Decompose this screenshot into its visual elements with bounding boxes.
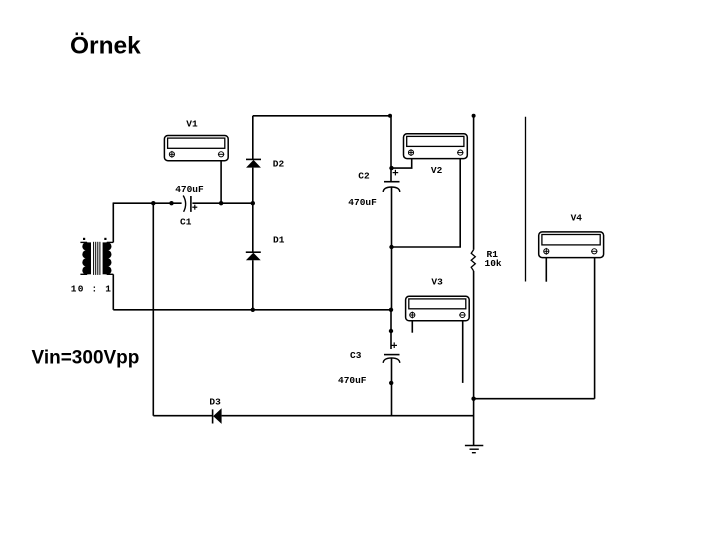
svg-text:V1: V1 (186, 119, 198, 130)
voltmeter V3 plus terminal (410, 312, 415, 319)
wire secondary bottom (112, 274, 114, 310)
node dot D3 branch (151, 201, 155, 205)
transformer T1 left winding (82, 242, 91, 274)
wire V4 left probe stub (545, 258, 547, 282)
wire C2 column upper (390, 116, 392, 182)
voltmeter V4 plus terminal (544, 248, 549, 255)
svg-text:D3: D3 (209, 397, 221, 408)
svg-text:V3: V3 (431, 277, 443, 288)
wire C3 column upper (390, 310, 392, 349)
capacitor C2 curved plate (383, 187, 400, 192)
node dot C2 bottom junction (389, 245, 393, 249)
voltmeter V1 minus terminal (218, 152, 224, 157)
voltmeter V4 minus terminal (591, 249, 597, 254)
diode D1 (246, 203, 261, 310)
svg-text:Örnek: Örnek (70, 33, 141, 60)
capacitor C1 plus sign (192, 205, 197, 210)
capacitor C1 straight plate (190, 196, 192, 212)
capacitor C1 curved plate (183, 196, 185, 212)
node dot D1 bottom (251, 308, 255, 312)
diode D3 (213, 408, 222, 424)
node dot (389, 329, 393, 333)
diode D2 (246, 116, 261, 203)
wire top rail right of C1 (192, 202, 252, 204)
wire V3 left probe stub (411, 321, 413, 333)
capacitor C3 plus sign (391, 342, 397, 348)
wire V3 right probe (462, 321, 464, 383)
wire C2 bottom lead (391, 187, 393, 309)
transformer T1 phase dots (83, 238, 85, 240)
svg-text:Vin=300Vpp: Vin=300Vpp (32, 348, 140, 369)
node dot right loop (471, 397, 475, 401)
wire left column to D3 (152, 203, 154, 416)
voltmeter V3 (406, 296, 470, 321)
node dot C3 top (389, 308, 393, 312)
svg-text:10k: 10k (485, 258, 502, 269)
svg-text:V2: V2 (431, 165, 443, 176)
wire bottom right of D3 (222, 415, 474, 417)
wire right loop horizontal (474, 398, 595, 400)
wire C3 bottom lead (391, 358, 393, 416)
node dot (389, 381, 393, 385)
svg-text:470uF: 470uF (338, 375, 367, 386)
node dot top of C2 column (388, 114, 392, 118)
wire top rail left of C1 (113, 202, 182, 204)
voltmeter V3 minus terminal (459, 312, 465, 317)
svg-text:D1: D1 (273, 234, 285, 245)
voltmeter V2 minus terminal (457, 150, 463, 155)
node dot V1 branch (219, 201, 223, 205)
svg-text:C2: C2 (358, 170, 370, 181)
transformer T1 leads (80, 242, 113, 274)
capacitor C3 curved plate (383, 358, 400, 363)
voltmeter V2 (404, 134, 468, 159)
wire bottom left of D3 (153, 415, 212, 417)
wire R1 column top (473, 116, 475, 250)
svg-text:V4: V4 (571, 212, 583, 223)
svg-text:C3: C3 (350, 350, 362, 361)
capacitor C2 plus sign (393, 170, 399, 176)
wire dangling vertical (525, 117, 527, 282)
wire secondary top (112, 203, 114, 242)
wire V2 left probe (392, 158, 412, 168)
wire R1 column bottom (473, 271, 475, 445)
wire V2 right probe (392, 158, 461, 247)
voltmeter V2 plus terminal (408, 149, 413, 156)
svg-text:470uF: 470uF (348, 197, 377, 208)
transformer T1 right winding (103, 242, 112, 274)
node dot D2-D1 column (251, 201, 255, 205)
node dot top (472, 114, 476, 118)
wire bottom mid rail (113, 309, 391, 311)
ground (465, 446, 483, 453)
wire V4 right probe (594, 258, 596, 399)
wire V1 to rail (220, 161, 222, 204)
svg-text:C1: C1 (180, 217, 192, 228)
voltmeter V4 (539, 232, 604, 258)
capacitor C2 straight plate (384, 181, 400, 183)
node dot (169, 201, 173, 205)
node dot C2 junction (389, 166, 393, 170)
svg-text:10 : 1: 10 : 1 (71, 283, 112, 294)
capacitor C3 straight plate (384, 354, 400, 356)
transformer T1 core (94, 242, 100, 275)
wire top rail (253, 115, 391, 117)
resistor R1 zigzag (471, 250, 475, 271)
voltmeter V1 (164, 136, 228, 161)
svg-text:470uF: 470uF (175, 184, 204, 195)
svg-text:D2: D2 (273, 159, 285, 170)
voltmeter V1 plus terminal (169, 151, 174, 158)
